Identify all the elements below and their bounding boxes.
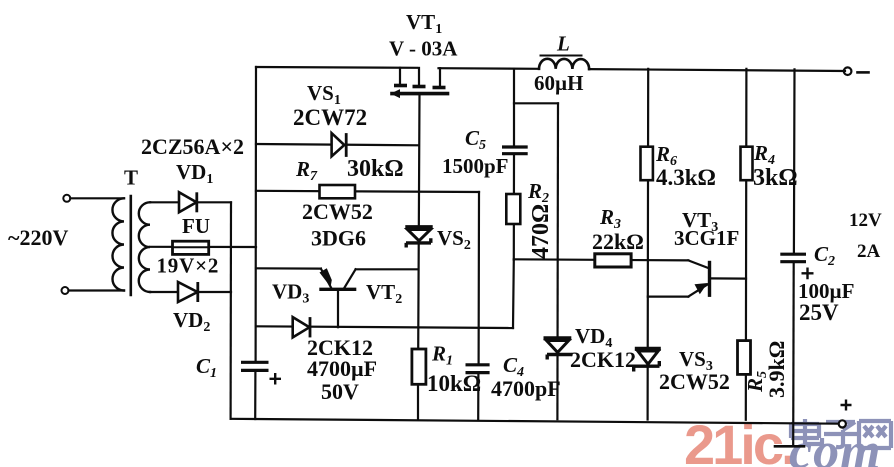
svg-text:VT1: VT1 xyxy=(406,10,442,37)
svg-text:4700µF: 4700µF xyxy=(307,356,377,381)
svg-text:25V: 25V xyxy=(799,300,839,325)
svg-text:2CW72: 2CW72 xyxy=(293,105,367,130)
svg-text:C2: C2 xyxy=(814,242,835,269)
svg-text:4.3kΩ: 4.3kΩ xyxy=(656,165,716,190)
svg-text:R7: R7 xyxy=(295,157,318,184)
svg-text:12V: 12V xyxy=(849,210,882,231)
svg-text:VD3: VD3 xyxy=(272,280,309,307)
svg-text:2A: 2A xyxy=(857,241,881,262)
svg-text:C5: C5 xyxy=(465,126,486,153)
svg-text:R4: R4 xyxy=(753,141,775,168)
svg-text:R3: R3 xyxy=(599,205,621,232)
svg-text:1500pF: 1500pF xyxy=(442,154,509,178)
svg-text:VD2: VD2 xyxy=(173,308,210,335)
svg-text:VS2: VS2 xyxy=(437,226,471,253)
svg-text:~220V: ~220V xyxy=(8,225,68,250)
svg-text:4700pF: 4700pF xyxy=(491,376,561,401)
svg-text:2CZ56A×2: 2CZ56A×2 xyxy=(141,134,244,159)
svg-text:50V: 50V xyxy=(321,379,359,404)
svg-text:2CW52: 2CW52 xyxy=(659,369,730,394)
svg-text:21ic.: 21ic. xyxy=(684,413,794,467)
svg-text:3.9kΩ: 3.9kΩ xyxy=(764,341,789,398)
svg-text:VT2: VT2 xyxy=(366,280,402,307)
svg-text:V - 03A: V - 03A xyxy=(389,37,458,61)
svg-text:VS1: VS1 xyxy=(307,81,341,108)
svg-text:VD1: VD1 xyxy=(176,160,213,187)
svg-text:2CW52: 2CW52 xyxy=(302,199,373,224)
svg-text:2CK12: 2CK12 xyxy=(570,347,636,372)
svg-text:30kΩ: 30kΩ xyxy=(347,156,404,182)
svg-text:19V×2: 19V×2 xyxy=(157,254,220,278)
svg-text:3kΩ: 3kΩ xyxy=(753,165,798,191)
svg-text:C1: C1 xyxy=(196,354,217,381)
svg-text:3CG1F: 3CG1F xyxy=(674,226,739,250)
svg-text:10kΩ: 10kΩ xyxy=(427,371,481,396)
svg-text:FU: FU xyxy=(182,214,210,238)
svg-text:T: T xyxy=(124,166,138,190)
svg-text:R2: R2 xyxy=(527,179,549,206)
svg-text:60µH: 60µH xyxy=(534,71,583,95)
svg-text:R1: R1 xyxy=(431,342,453,369)
svg-text:3DG6: 3DG6 xyxy=(311,226,366,251)
svg-text:L: L xyxy=(556,32,570,56)
svg-text:470Ω: 470Ω xyxy=(528,204,554,259)
svg-text:22kΩ: 22kΩ xyxy=(592,229,644,254)
